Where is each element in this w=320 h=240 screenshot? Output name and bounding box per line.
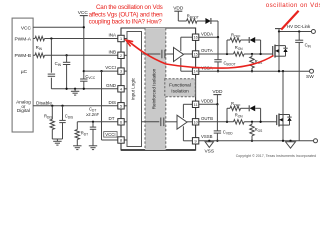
resistor R_OFF (A) <box>230 38 241 42</box>
wire channel A coupling <box>142 53 161 55</box>
wire VDDB internal stub <box>183 103 192 105</box>
wire VSSA internal stub <box>181 70 193 72</box>
resistor R_IN (PWM-B) <box>35 53 45 57</box>
svg-text:VDDB: VDDB <box>201 99 213 104</box>
svg-text:SW: SW <box>306 74 314 80</box>
capacitor C_IN <box>66 55 68 62</box>
capacitor C_VCC <box>83 71 85 79</box>
svg-text:Digital: Digital <box>17 108 30 113</box>
op-amp driver A triangle <box>174 48 184 62</box>
junction C_VDD bottom <box>216 140 218 142</box>
capacitor PWM-A filter <box>50 39 52 73</box>
pin 1 INA <box>118 35 124 41</box>
junction R_DIS tap <box>51 105 53 107</box>
svg-text:6: 6 <box>120 120 122 124</box>
wire gate Q1 lead <box>272 53 274 55</box>
terminal SW <box>310 69 314 73</box>
wire HV DC-Link rail <box>279 31 311 33</box>
svg-text:PWM-A: PWM-A <box>14 36 31 42</box>
wire pin3 stub <box>124 70 127 72</box>
resistor R_ON (A) <box>234 52 245 56</box>
wire coupling cap to driver A <box>166 53 173 55</box>
ground symbol (R_DT) <box>73 145 81 147</box>
resistor R_GS (A) <box>250 57 254 69</box>
junction Q1 source SW <box>278 70 280 72</box>
capacitor C_BOOT <box>217 37 219 60</box>
wire pin10 OUTB <box>199 121 234 123</box>
reinforced isolation barrier band <box>145 28 166 150</box>
branch rejoin B <box>260 108 262 122</box>
svg-text:Disable: Disable <box>36 100 52 106</box>
svg-text:GND: GND <box>106 83 117 88</box>
junction VDDA node <box>217 36 219 38</box>
svg-text:affects Vgs (OUTA) and then: affects Vgs (OUTA) and then <box>89 11 164 18</box>
junction C_DT tap <box>92 121 94 123</box>
wire pin15 OUTA <box>199 53 234 55</box>
capacitor channel A isolation coupling <box>161 50 163 59</box>
pin 6 DT <box>118 119 124 125</box>
junction Q2 drain SW <box>282 70 284 72</box>
wire PWM-B to INB pin <box>45 54 118 56</box>
wire gate Q2 lead <box>275 121 277 123</box>
resistor R_GS (B) <box>251 122 253 125</box>
wire driver A output to pin 15 <box>184 53 193 55</box>
diode gate discharge B <box>248 105 250 111</box>
wire R_ON to gate node A <box>244 53 273 55</box>
svg-text:1: 1 <box>120 37 122 41</box>
svg-text:ROFF: ROFF <box>231 101 240 107</box>
junction VDDB node <box>216 103 218 105</box>
svg-text:DIS: DIS <box>108 100 116 105</box>
wire pin4 stub <box>124 88 127 90</box>
terminal HV DC-Link <box>311 30 315 34</box>
svg-text:RON: RON <box>235 113 244 119</box>
junction Q2 source <box>282 140 284 142</box>
wire pin8 stub <box>124 139 127 141</box>
pin 11 VDDB <box>192 101 198 107</box>
wire D_BOOT to VDDA node <box>211 20 218 22</box>
wire VDD to R_BOOT <box>178 20 186 22</box>
junction C_IN tap <box>298 30 300 32</box>
svg-text:11: 11 <box>194 103 198 107</box>
svg-text:RBOOT: RBOOT <box>187 13 199 19</box>
ground symbol (C_DT) <box>89 145 97 147</box>
junction VCCI branch to pin 8 <box>100 70 102 72</box>
wire coupling cap to driver B <box>165 121 177 123</box>
svg-text:VCCI: VCCI <box>105 65 116 70</box>
junction PWM-B filter node <box>65 54 67 56</box>
junction C_IN/GND <box>65 88 67 90</box>
svg-text:14: 14 <box>193 70 197 74</box>
wire R_ON to gate node B <box>244 121 275 123</box>
wire uC VCC to VCC stem <box>33 26 84 28</box>
branch R_OFF A <box>226 40 228 54</box>
wire pin16 VDDA <box>199 36 218 38</box>
junction R_GS B top <box>251 121 253 123</box>
ground symbol (disable) <box>56 139 58 141</box>
svg-text:Reinforced Isolation: Reinforced Isolation <box>151 68 156 109</box>
capacitor C_DIS <box>62 106 64 121</box>
functional isolation block <box>165 79 196 97</box>
wire DT pin to RC <box>77 121 118 123</box>
junction C_DIS tap <box>61 105 63 107</box>
junction gate node B <box>259 121 261 123</box>
resistor R_ON (B) <box>234 120 245 124</box>
pin 5 DIS <box>118 103 124 109</box>
pin 3 VCCI <box>118 68 124 74</box>
wire pin14 VSSA to SW <box>199 70 310 72</box>
body diode Q1 <box>279 45 286 47</box>
junction gnd symbol <box>74 88 76 90</box>
wire gate Q1 <box>272 53 274 55</box>
svg-text:OUTA: OUTA <box>201 48 213 53</box>
junction VCCI/C_VCC <box>83 70 85 72</box>
svg-text:INA: INA <box>108 33 116 38</box>
junction VSS symbol <box>208 140 210 142</box>
transistor Q2 low-side MOSFET <box>282 71 284 114</box>
pin 10 OUTB <box>192 119 198 125</box>
svg-text:DT: DT <box>109 116 115 121</box>
junction C_VCC/GND <box>83 88 85 90</box>
svg-text:Isolation: Isolation <box>171 89 189 94</box>
wire Disable from uC to DIS pin <box>33 105 118 107</box>
resistor R_DT <box>76 122 78 130</box>
wire R_DIS C_DIS to ground <box>52 138 62 140</box>
junction C_BOOT/VSSA <box>217 70 219 72</box>
wire VCC stem down to VCCI rail <box>83 16 85 72</box>
junction gate node A <box>259 53 261 55</box>
junction R_GS A top <box>251 53 253 55</box>
svg-text:OUTB: OUTB <box>201 116 213 121</box>
branch R_OFF B <box>226 108 228 122</box>
svg-text:µC: µC <box>21 69 28 75</box>
wire pin2 to input logic <box>124 54 127 56</box>
junction VCC/uC <box>83 26 85 28</box>
svg-text:9: 9 <box>195 139 197 143</box>
svg-text:CDIS: CDIS <box>65 114 73 120</box>
op-amp driver B triangle <box>177 115 187 129</box>
svg-text:CVDD: CVDD <box>223 129 233 135</box>
junction HV rail <box>278 30 280 32</box>
svg-text:5: 5 <box>120 104 122 108</box>
svg-text:4: 4 <box>120 87 122 91</box>
wire R_OFF to D A <box>241 39 249 41</box>
svg-text:RDT: RDT <box>81 131 88 137</box>
svg-text:3: 3 <box>120 70 122 74</box>
svg-text:RON: RON <box>235 45 244 51</box>
junction gate network A left <box>226 53 228 55</box>
svg-text:VSS: VSS <box>204 149 214 155</box>
pin 16 VDDA <box>192 34 198 40</box>
wire PWM-A to INA pin <box>45 38 118 40</box>
svg-text:Copyright © 2017, Texas Instru: Copyright © 2017, Texas Instruments Inco… <box>236 154 316 158</box>
wire pin1 to input logic <box>124 38 127 40</box>
ground symbol (power stage) <box>289 140 291 142</box>
wire GND bus to pin 4 <box>51 88 117 90</box>
capacitor C_IN (DC link) <box>298 32 300 41</box>
svg-text:CIN: CIN <box>55 61 62 67</box>
pin 8 VCCI boxed label <box>118 137 124 143</box>
wire pin6 stub <box>124 121 127 123</box>
wire pin5 stub <box>124 105 127 107</box>
wire PWM-B from uC <box>33 54 35 56</box>
capacitor C_VDD <box>216 104 218 131</box>
capacitor channel B isolation coupling <box>160 118 162 127</box>
svg-text:oscillation on Vds: oscillation on Vds <box>266 2 320 9</box>
VSS symbol <box>205 142 213 148</box>
wire PWM-A from uC <box>33 38 35 40</box>
junction PWM-A filter node <box>50 37 52 39</box>
svg-text:CBOOT: CBOOT <box>224 61 236 67</box>
capacitor C_DT <box>92 122 94 127</box>
resistor R_BOOT <box>187 19 198 23</box>
body diode Q2 <box>283 114 290 116</box>
svg-text:PWM-B: PWM-B <box>14 53 31 59</box>
input logic block <box>127 32 142 147</box>
branch rejoin A <box>260 40 262 54</box>
wire VSSB internal stub <box>183 140 192 142</box>
terminal bottom right <box>314 139 318 143</box>
junction R_GS A bottom <box>251 70 253 72</box>
svg-text:VSSB: VSSB <box>201 134 213 139</box>
svg-text:8: 8 <box>120 139 122 143</box>
svg-text:ROFF: ROFF <box>231 33 240 39</box>
svg-text:VCCI: VCCI <box>105 132 115 137</box>
gate driver IC U1 outline <box>121 28 196 150</box>
pin 15 OUTA <box>192 51 198 57</box>
svg-text:RIN: RIN <box>36 45 43 51</box>
ground symbol (logic side) <box>74 89 76 92</box>
svg-text:Functional: Functional <box>169 83 191 88</box>
resistor R_OFF (B) <box>230 106 241 110</box>
svg-text:Can the oscillation on Vds: Can the oscillation on Vds <box>96 4 163 11</box>
wire VDDA internal stub <box>181 36 193 38</box>
svg-text:RGS: RGS <box>255 127 263 133</box>
wire channel B coupling <box>142 121 160 123</box>
svg-text:≥2.2nF: ≥2.2nF <box>86 112 99 117</box>
wire pin11 VDDB <box>199 103 218 105</box>
svg-text:VDDA: VDDA <box>201 31 213 36</box>
svg-text:VCC: VCC <box>21 25 32 31</box>
wire VCCI branch down to pin 8 <box>101 71 103 140</box>
red coupling arrow curve <box>128 41 274 69</box>
transistor Q1 high-side MOSFET <box>278 32 280 46</box>
diode gate discharge A <box>248 37 250 43</box>
resistor R_DIS <box>51 106 53 119</box>
wire R_OFF to D B <box>241 107 249 109</box>
svg-text:HV DC-Link: HV DC-Link <box>287 24 311 29</box>
diode D_BOOT <box>205 18 210 24</box>
svg-text:CIN: CIN <box>305 42 312 48</box>
wire pin9 VSSB bottom bus <box>199 140 314 142</box>
svg-text:15: 15 <box>193 53 197 57</box>
wire R_BOOT to D_BOOT <box>197 20 205 22</box>
svg-text:coupling back to INA? How?: coupling back to INA? How? <box>89 18 163 25</box>
svg-text:INB: INB <box>108 49 116 54</box>
junction gate network B left <box>226 121 228 123</box>
HV DC-Link node T <box>275 28 283 30</box>
red pointer line to Vds <box>281 11 298 30</box>
pin 14 VSSA <box>192 68 198 74</box>
junction R_GS B bottom <box>251 140 253 142</box>
svg-text:16: 16 <box>193 36 197 40</box>
pin 2 INB <box>118 52 124 58</box>
microcontroller U-uC box <box>12 18 33 132</box>
svg-text:2: 2 <box>120 54 122 58</box>
svg-text:RDIS: RDIS <box>44 114 52 120</box>
wire driver B output to pin 10 <box>187 121 192 123</box>
svg-text:10: 10 <box>193 120 197 124</box>
pin 4 GND <box>118 86 124 92</box>
svg-text:Input Logic: Input Logic <box>131 77 136 100</box>
resistor R_IN (PWM-A) <box>35 36 45 40</box>
pin 9 VSSB <box>192 138 198 144</box>
wire VCCI rail to pin 3 <box>84 70 118 72</box>
